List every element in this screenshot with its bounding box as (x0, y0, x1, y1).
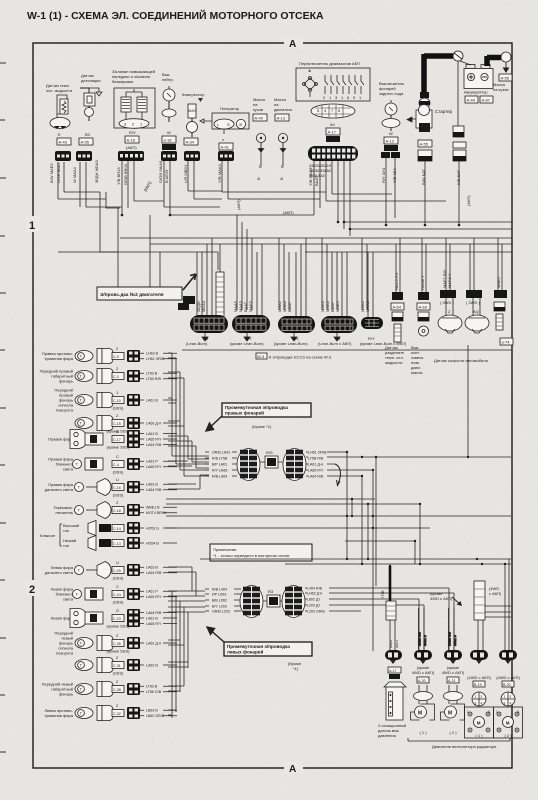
svg-text:LH61 OR/B: LH61 OR/B (146, 357, 165, 361)
svg-text:( 1 ): ( 1 ) (475, 733, 483, 738)
inline connector C-3 (127, 370, 140, 382)
svg-text:P/S: P/S (390, 675, 396, 679)
wires C-17 (140, 432, 177, 447)
svg-text:A-55: A-55 (420, 142, 429, 147)
svg-text:LA61 B: LA61 B (146, 398, 158, 402)
engine harness oval connector 5 small (361, 317, 383, 341)
svg-text:B3: B3 (85, 132, 91, 137)
svg-text:A-69: A-69 (419, 305, 428, 310)
svg-text:МКП: МКП (164, 145, 173, 150)
svg-text:B-20: B-20 (503, 683, 511, 687)
svg-text:нейтр.: нейтр. (162, 77, 174, 82)
left front turn signal (SSS) (75, 655, 124, 676)
svg-text:C-3: C-3 (113, 375, 119, 379)
fan motor 4WD column 4 connector (499, 650, 517, 664)
wires C-14 (140, 526, 177, 530)
wire drops from top connectors (58, 152, 459, 236)
svg-text:LA64 R/B: LA64 R/B (146, 488, 162, 492)
right front marker lamp (40, 366, 124, 384)
big oval connector AT (308, 146, 358, 161)
svg-text:LT63 B: LT63 B (146, 372, 158, 376)
svg-text:A: A (289, 764, 296, 775)
right edge strip connector (494, 276, 507, 330)
svg-text:MAG: MAG (189, 109, 197, 113)
svg-text:B/P LA61: B/P LA61 (212, 462, 227, 466)
wires C-3 (140, 372, 177, 382)
wires C-18 (140, 506, 177, 516)
svg-text:A-43: A-43 (59, 140, 68, 145)
svg-text:C-32: C-32 (113, 712, 121, 716)
long horizontal buses mid (58, 222, 512, 252)
fan motor column 1 wires (418, 608, 428, 650)
svg-text:Стартер: Стартер (435, 109, 453, 114)
svg-text:LB63 B: LB63 B (146, 709, 158, 713)
speed sensor 2WD connector (465, 290, 489, 333)
right headlamp (48, 429, 130, 450)
svg-text:A-87: A-87 (482, 98, 491, 103)
engine harness oval connector 2 (232, 315, 270, 341)
svg-text:Клаксон: Клаксон (40, 533, 55, 538)
svg-text:1: 1 (467, 710, 469, 714)
inline connector below A-34 (184, 151, 200, 161)
svg-text:1: 1 (29, 220, 35, 232)
svg-text:W-3: W-3 (257, 354, 265, 359)
inline connector C-23 (127, 609, 140, 627)
svg-text:Y/B 3Л4: Y/B 3Л4 (392, 168, 397, 183)
svg-text:R3: R3 (268, 589, 274, 594)
wires C-31 (140, 663, 177, 667)
svg-text:2: 2 (510, 695, 512, 699)
svg-text:*1 - только опрведело в моторн: *1 - только опрведело в моторном отсеке (213, 553, 290, 558)
svg-text:туманная фара: туманная фара (44, 713, 73, 718)
svg-text:C-4: C-4 (113, 463, 119, 467)
fan motor column 1 connector (414, 650, 432, 664)
svg-text:*1): *1) (293, 666, 299, 671)
svg-text:ЛАМ8 Y: ЛАМ8 Y (420, 275, 425, 290)
connector ref A-16 (AKП) (125, 136, 139, 143)
svg-text:(SSS): (SSS) (113, 671, 124, 676)
inline connector C-16 (127, 481, 140, 493)
4WD AT connector strip (474, 581, 502, 620)
svg-text:B: B (259, 164, 262, 169)
inline connector C-28 (127, 683, 140, 695)
wires C-29 (140, 566, 177, 576)
right low-beam headlamp (48, 454, 124, 475)
svg-text:C-13: C-13 (113, 542, 121, 546)
svg-text:A: A (289, 39, 296, 50)
battery (464, 65, 493, 95)
svg-text:3: 3 (504, 702, 506, 706)
svg-text:масла: масла (411, 370, 423, 375)
connector ref A-34 (184, 138, 198, 145)
svg-text:C-28: C-28 (113, 688, 121, 692)
callout left lamps harness (207, 627, 312, 671)
svg-text:OR/B BR04: OR/B BR04 (123, 163, 128, 185)
svg-text:света: света (63, 597, 74, 602)
inline connector C-14 (127, 522, 140, 534)
svg-text:1: 1 (496, 710, 498, 714)
svg-text:A-41: A-41 (221, 145, 230, 150)
svg-text:(АКП): (АКП) (283, 210, 294, 215)
svg-text:4: 4 (510, 702, 512, 706)
wires C-15 (140, 421, 177, 425)
left pair output labels (307, 586, 325, 613)
pressure switch feed (thick) (389, 566, 392, 602)
inline connector C-26 (127, 637, 140, 649)
junction box R/S (265, 456, 278, 468)
svg-text:ИИЕ5 G/B: ИИЕ5 G/B (448, 632, 452, 646)
svg-text:MAA3: MAA3 (365, 300, 370, 312)
svg-text:Двигатели вентилятора радиатор: Двигатели вентилятора радиатора (432, 744, 497, 749)
svg-text:тон: тон (63, 543, 69, 548)
svg-text:(SSS): (SSS) (113, 600, 124, 605)
fan motor column 2 connector (444, 650, 462, 664)
left high-beam headlamp (45, 560, 124, 581)
svg-text:3ЕДН MDA3: 3ЕДН MDA3 (94, 160, 99, 183)
connector ref A-17 (AKП) (326, 128, 340, 135)
svg-text:W MAA4: W MAA4 (72, 166, 77, 183)
svg-text:A-12: A-12 (386, 139, 395, 144)
svg-text:A-13: A-13 (277, 116, 286, 121)
svg-text:ИР LЛ63: ИР LЛ63 (212, 592, 226, 596)
left front turn signal (55, 631, 131, 656)
svg-text:A-16: A-16 (127, 138, 136, 143)
svg-text:света: света (63, 467, 74, 472)
inline connector below alternator (218, 151, 234, 161)
svg-text:C-14: C-14 (113, 527, 121, 531)
bus junction dots (346, 451, 506, 567)
svg-text:C-31: C-31 (113, 664, 121, 668)
left low-beam headlamp (51, 584, 124, 605)
svg-text:2: 2 (481, 695, 483, 699)
svg-text:LA64 R/B: LA64 R/B (146, 571, 162, 575)
svg-text:(АКП): (АКП) (466, 195, 471, 206)
svg-text:Y/B BR13: Y/B BR13 (116, 167, 121, 185)
svg-text:M: M (448, 711, 452, 717)
alternator (200, 106, 249, 142)
svg-text:MAE5: MAE5 (248, 300, 253, 312)
wires C-10 (140, 398, 177, 402)
svg-text:Y/R MAA3: Y/R MAA3 (217, 164, 222, 183)
horn low tone (88, 536, 124, 551)
svg-text:LA65 R/Y: LA65 R/Y (146, 595, 162, 599)
svg-text:(SSS): (SSS) (113, 576, 124, 581)
knock sensor (80, 73, 102, 137)
svg-text:M: M (506, 721, 510, 726)
vertical feeders into middle section (118, 208, 502, 310)
reverse lamp switch (379, 81, 404, 136)
svg-text:ИИЕ9: ИИЕ9 (389, 640, 393, 648)
neutral switch (162, 72, 176, 135)
svg-text:(Lean-Burn с АКП): (Lean-Burn с АКП) (318, 341, 352, 346)
svg-text:LA61 P: LA61 P (146, 590, 158, 594)
svg-text:ИИЕ1 B: ИИЕ1 B (453, 635, 457, 646)
svg-text:Переключатель диапазонов АКП: Переключатель диапазонов АКП (299, 61, 360, 66)
svg-text:GR/B L203: GR/B L203 (212, 609, 230, 613)
svg-text:Датчик скорости автомобиля: Датчик скорости автомобиля (434, 358, 488, 363)
inline connector C-17 (127, 430, 140, 448)
svg-text:K/B BAT: K/B BAT (456, 169, 461, 185)
svg-text:LT60 R/B: LT60 R/B (146, 377, 162, 381)
svg-text:LA64 R/B: LA64 R/B (146, 611, 162, 615)
svg-text:LA64 R/B: LA64 R/B (146, 443, 162, 447)
svg-text:1: 1 (475, 695, 477, 699)
ground engine (274, 97, 293, 169)
battery cable left thick (424, 54, 453, 92)
fan motor 2 (441, 685, 465, 735)
svg-text:A-17: A-17 (389, 669, 397, 673)
svg-text:двигатель: двигатель (274, 107, 293, 112)
connector ref a-18 (MKП) (162, 136, 176, 143)
svg-text:R/Y 3И4: R/Y 3И4 (381, 167, 386, 183)
svg-text:(АКП): (АКП) (126, 145, 137, 150)
wires C-13 (140, 541, 177, 545)
engine harness oval connector 1 (190, 315, 228, 341)
svg-text:( 1 ): ( 1 ) (419, 730, 427, 735)
svg-text:L802 Дт: L802 Дт (307, 597, 320, 601)
extra oval feed drops (197, 238, 373, 317)
inline connector C-32 (127, 707, 140, 719)
inline connector C-24 (127, 588, 140, 600)
fan motor 4WD column 3 connector (470, 650, 488, 664)
AT pin number rows (309, 163, 332, 178)
svg-text:B/W MAE5: B/W MAE5 (49, 163, 54, 183)
wires C-32 (140, 709, 177, 719)
svg-text:LA63 B: LA63 B (146, 483, 158, 487)
intermediate connector left lamps (harness side) (282, 586, 305, 618)
svg-text:A-44: A-44 (467, 98, 476, 103)
wires C-26 (140, 641, 177, 645)
svg-text:LA62 Д-я: LA62 Д-я (146, 641, 161, 645)
svg-text:жидкости: жидкости (385, 360, 402, 365)
svg-text:C: C (116, 584, 119, 589)
svg-text:1: 1 (504, 695, 506, 699)
svg-text:L/R MBD1: L/R MBD1 (183, 164, 188, 183)
svg-text:на кузов: на кузов (493, 87, 508, 92)
svg-text:LA61 P: LA61 P (146, 460, 158, 464)
svg-text:(кроме SSS): (кроме SSS) (107, 649, 131, 654)
svg-text:W: W (389, 131, 393, 136)
svg-text:(SSS): (SSS) (113, 470, 124, 475)
svg-text:MAF8 Y: MAF8 Y (447, 273, 452, 288)
svg-text:кузов: кузов (253, 107, 263, 112)
right fog lamp (42, 346, 124, 364)
right front turn signal (SSS) (55, 388, 124, 413)
junction box L/S (267, 595, 280, 607)
svg-text:U: U (116, 477, 119, 482)
svg-text:LA63 B: LA63 B (146, 566, 158, 570)
svg-text:ИИЕ1 B: ИИЕ1 B (423, 635, 427, 646)
svg-text:M: M (418, 711, 422, 717)
junction dots (121, 214, 461, 231)
svg-text:#V: #V (330, 122, 335, 127)
ref A-17 P/S (388, 667, 401, 673)
2-position pressure switch body (384, 682, 406, 720)
engine harness no2 callout (97, 274, 196, 300)
svg-text:U: U (116, 560, 119, 565)
svg-text:C: C (116, 454, 119, 459)
left front marker lamp (42, 679, 124, 697)
svg-text:W-1 (1) - СХЕМА ЭЛ. СОЕДИНЕНИЙ: W-1 (1) - СХЕМА ЭЛ. СОЕДИНЕНИЙ МОТОРНОГО… (27, 9, 324, 22)
svg-text:B: B (281, 164, 284, 169)
svg-text:R/B L404: R/B L404 (212, 587, 227, 591)
svg-text:A-55: A-55 (81, 140, 90, 145)
pressure switch oval connector (385, 650, 402, 664)
fan motor 1 (411, 685, 435, 735)
ECCS reference line (182, 349, 512, 351)
svg-text:R/S: R/S (266, 450, 273, 455)
inline connector C-4 (127, 458, 140, 470)
inline connector C-31 (127, 659, 140, 671)
svg-text:поворота: поворота (56, 408, 74, 413)
svg-text:Примечание:: Примечание: (213, 547, 237, 552)
connector ref A-12 (MKП) (384, 137, 398, 144)
svg-text:(SSS): (SSS) (113, 406, 124, 411)
svg-text:АКП: АКП (328, 137, 336, 142)
intermediate connector left lamps (body side) (240, 586, 263, 618)
left pair input labels (205, 587, 241, 613)
coolant temp gauge sender strip (385, 273, 405, 365)
fans bracket (408, 738, 510, 741)
svg-text:ИИЕ4: ИИЕ4 (395, 640, 399, 648)
svg-text:4WD с АКП): 4WD с АКП) (412, 670, 435, 675)
starter terminal oval (419, 98, 430, 108)
connector ref A-55 (79, 138, 93, 145)
svg-text:A-64: A-64 (393, 305, 402, 310)
svg-text:3: 3 (517, 710, 519, 714)
right pair output wires (306, 452, 511, 651)
connector ref A-41 (219, 143, 233, 150)
svg-text:фонарь: фонарь (59, 692, 73, 697)
svg-text:WBE1 B: WBE1 B (146, 506, 160, 510)
svg-text:a-74: a-74 (502, 340, 511, 345)
ECCS reference label W-3 (256, 353, 332, 360)
svg-text:B: B (256, 177, 261, 180)
svg-text:x: x (222, 137, 224, 142)
svg-text:R/V: R/V (129, 130, 136, 135)
fan motor column 2 wires (448, 608, 458, 650)
svg-text:HAC3 PU: HAC3 PU (394, 273, 399, 290)
inline connector C-9 (127, 350, 140, 362)
wire bundle left lamps (168, 567, 205, 718)
svg-text:дальнего света: дальнего света (45, 487, 74, 492)
svg-text:L404 R/B: L404 R/B (307, 586, 323, 590)
svg-text:C-23: C-23 (113, 617, 121, 621)
svg-text:C-10: C-10 (113, 399, 121, 403)
svg-text:4: 4 (481, 702, 483, 706)
wires C-28 (140, 685, 177, 695)
svg-text:LB62 GR/B: LB62 GR/B (146, 714, 165, 718)
compressor (182, 92, 205, 137)
wires C-24 (140, 590, 177, 600)
svg-text:фонарь: фонарь (59, 379, 73, 384)
svg-text:детонации: детонации (81, 78, 101, 83)
svg-text:LA61 B: LA61 B (146, 616, 158, 620)
svg-text:C-18: C-18 (113, 509, 121, 513)
left headlamp (51, 608, 131, 629)
svg-text:L203 GR/B: L203 GR/B (307, 609, 325, 613)
svg-text:S: S (227, 122, 230, 127)
svg-text:LA64 R/B: LA64 R/B (308, 474, 324, 478)
svg-text:(Lean-Burn): (Lean-Burn) (186, 341, 208, 346)
inline connector Lean pair (381, 152, 400, 158)
engine harness oval connector 3 (278, 316, 315, 341)
svg-text:безжиразки: безжиразки (112, 79, 133, 84)
svg-text:(АКП): (АКП) (236, 199, 241, 210)
speed sensor 4WD connector (438, 269, 462, 333)
inline connector C-29 (127, 564, 140, 576)
svg-text:(Кроме *1): (Кроме *1) (252, 424, 272, 429)
ground body left (253, 97, 267, 169)
svg-text:ИИЕ5 G/B: ИИЕ5 G/B (418, 632, 422, 646)
svg-text:ГОВ: ГОВ (380, 590, 385, 598)
svg-text:(SSS): (SSS) (113, 493, 124, 498)
callout right lamps harness (206, 403, 311, 431)
horn high tone (88, 521, 124, 536)
svg-text:LT63 B: LT63 B (146, 685, 158, 689)
svg-text:левых фонарей: левых фонарей (227, 649, 263, 655)
svg-text:G: G (116, 608, 119, 613)
svg-text:W: W (167, 130, 171, 135)
hook arrow *1 (335, 464, 340, 486)
svg-text:A-34: A-34 (186, 140, 195, 145)
ref box a-74 (500, 338, 513, 345)
svg-text:LA65 R/Y: LA65 R/Y (146, 622, 162, 626)
right pair output labels (308, 450, 327, 478)
svg-text:LA65 R/Y: LA65 R/Y (146, 437, 162, 441)
svg-text:B/B LЛ62: B/B LЛ62 (212, 598, 227, 602)
AT range switch box (296, 61, 370, 127)
intermediate connector right lamps (harness side) (283, 449, 306, 481)
svg-text:К э/проводке ECCS на схеме W-3: К э/проводке ECCS на схеме W-3 (269, 355, 332, 360)
wires C-4 (140, 460, 177, 470)
pressure switch connector strip (380, 590, 399, 650)
inline connector below A-43 (55, 151, 71, 161)
svg-text:AQ: AQ (473, 309, 479, 314)
svg-text:(кроме SSS): (кроме SSS) (107, 624, 131, 629)
inline connector 3-gang (118, 151, 144, 161)
svg-text:правых фонарей: правых фонарей (225, 410, 264, 416)
inline connector C-18 (127, 504, 140, 516)
svg-text:MAE5: MAE5 (335, 300, 340, 312)
svg-text:A-56: A-56 (501, 76, 510, 81)
engine harness oval connector 4 (321, 316, 357, 341)
vertical strip connector left of oval row (183, 244, 224, 325)
wire bundle right lamps (168, 353, 209, 489)
svg-text:B: B (279, 177, 284, 180)
svg-text:B AE29: B AE29 (164, 169, 169, 183)
battery center connector (453, 126, 464, 137)
svg-text:LA62 B: LA62 B (146, 663, 158, 667)
svg-text:(кроме Lean-Burn): (кроме Lean-Burn) (274, 341, 308, 346)
svg-text:(кроме Lean-Burn): (кроме Lean-Burn) (230, 341, 264, 346)
svg-text:C-9: C-9 (113, 355, 119, 359)
inline connector below A-55 (76, 151, 92, 161)
left fog lamp (44, 703, 124, 721)
connector ref A-43 (57, 138, 71, 145)
inline connector MKП left of oval row (178, 303, 189, 310)
thermo switch (53, 500, 124, 519)
fan motor 4WD 4 (494, 692, 523, 738)
svg-text:LA61 Д-я: LA61 Д-я (308, 462, 323, 466)
node A bottom (284, 761, 303, 774)
svg-text:LA65 R/Y: LA65 R/Y (308, 468, 324, 472)
intermediate connector right lamps (body side) (237, 449, 260, 481)
oil pressure switch (411, 275, 430, 375)
svg-text:Э/провс.дка №2 двигателя: Э/провс.дка №2 двигателя (100, 292, 164, 298)
svg-text:A-17: A-17 (328, 130, 337, 135)
svg-text:LA60 Д-я: LA60 Д-я (146, 421, 161, 425)
